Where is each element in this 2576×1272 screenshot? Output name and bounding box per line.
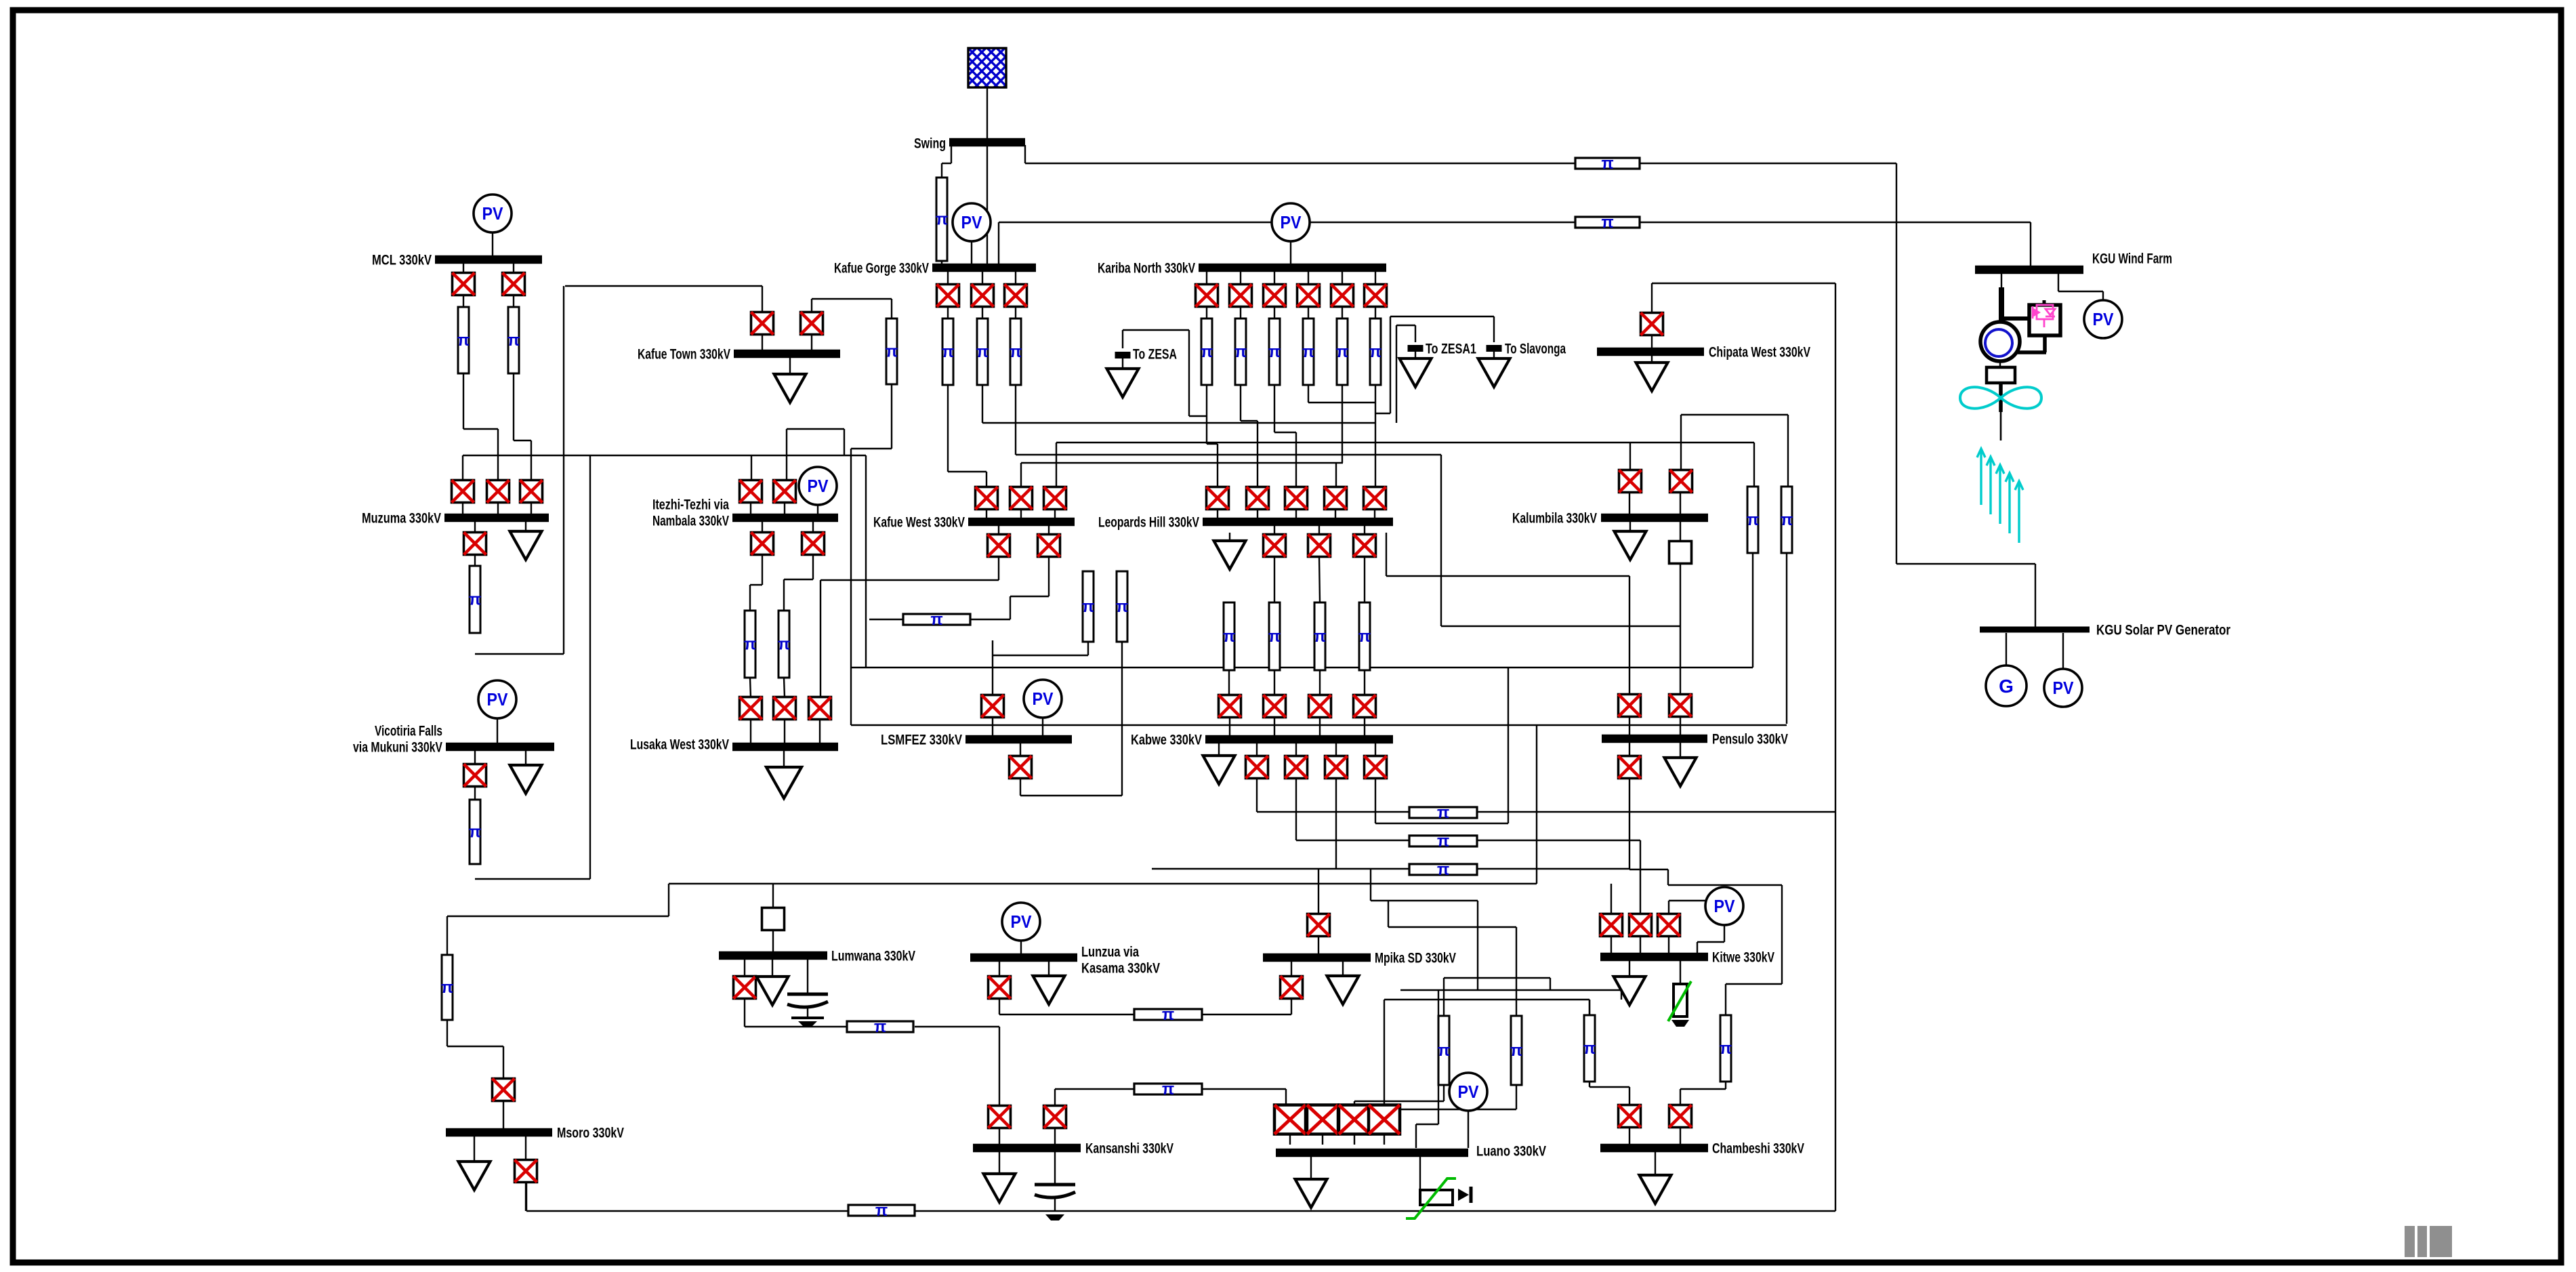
- svg-text:Chipata West 330kV: Chipata West 330kV: [1709, 345, 1810, 361]
- svg-text:PV: PV: [2093, 309, 2115, 329]
- svg-text:PV: PV: [1033, 689, 1054, 709]
- svg-text:PV: PV: [1281, 212, 1302, 232]
- svg-text:KGU Solar PV Generator: KGU Solar PV Generator: [2096, 623, 2230, 638]
- svg-text:PV: PV: [1458, 1082, 1480, 1102]
- svg-text:π: π: [1437, 832, 1449, 850]
- svg-text:π: π: [1116, 598, 1128, 616]
- svg-text:Pensulo 330kV: Pensulo 330kV: [1712, 732, 1788, 747]
- svg-text:π: π: [1268, 343, 1281, 361]
- svg-text:Chambeshi 330kV: Chambeshi 330kV: [1712, 1141, 1804, 1157]
- svg-text:π: π: [1010, 343, 1022, 361]
- svg-text:π: π: [1583, 1040, 1596, 1058]
- svg-text:π: π: [875, 1202, 888, 1220]
- svg-text:Kabwe 330kV: Kabwe 330kV: [1131, 733, 1202, 748]
- svg-text:Kafue Gorge 330kV: Kafue Gorge 330kV: [834, 261, 929, 276]
- svg-text:Lunzua via: Lunzua via: [1081, 945, 1139, 960]
- svg-text:Kalumbila 330kV: Kalumbila 330kV: [1512, 511, 1597, 527]
- svg-text:Vicotiria Falls: Vicotiria Falls: [375, 724, 442, 739]
- svg-text:π: π: [1720, 1040, 1732, 1058]
- svg-text:π: π: [1437, 804, 1449, 822]
- svg-text:π: π: [457, 331, 470, 350]
- svg-text:π: π: [1302, 343, 1314, 361]
- svg-text:π: π: [1201, 343, 1213, 361]
- svg-text:Muzuma 330kV: Muzuma 330kV: [362, 511, 441, 527]
- svg-text:Msoro 330kV: Msoro 330kV: [557, 1126, 624, 1141]
- svg-text:To Slavonga: To Slavonga: [1505, 342, 1566, 357]
- svg-text:G: G: [1999, 676, 2014, 697]
- svg-text:π: π: [778, 636, 790, 654]
- svg-text:π: π: [936, 211, 948, 229]
- svg-text:Kariba North 330kV: Kariba North 330kV: [1098, 261, 1195, 276]
- svg-text:LSMFEZ 330kV: LSMFEZ 330kV: [881, 733, 962, 748]
- svg-text:π: π: [1162, 1006, 1174, 1024]
- svg-text:KGU Wind Farm: KGU Wind Farm: [2092, 251, 2172, 267]
- svg-text:π: π: [1369, 343, 1382, 361]
- svg-text:PV: PV: [1011, 911, 1033, 932]
- svg-text:Mpika SD 330kV: Mpika SD 330kV: [1375, 951, 1456, 966]
- svg-text:π: π: [1314, 628, 1326, 646]
- svg-text:π: π: [441, 979, 453, 997]
- svg-text:π: π: [942, 343, 954, 361]
- svg-text:π: π: [1601, 155, 1613, 173]
- svg-text:π: π: [1781, 511, 1793, 529]
- svg-text:π: π: [1268, 628, 1281, 646]
- svg-text:PV: PV: [808, 476, 829, 496]
- svg-text:π: π: [1082, 598, 1094, 616]
- svg-text:Swing: Swing: [914, 136, 946, 152]
- svg-text:Lusaka West 330kV: Lusaka West 330kV: [630, 737, 729, 753]
- svg-text:π: π: [976, 343, 989, 361]
- svg-text:To ZESA: To ZESA: [1133, 347, 1177, 363]
- svg-text:π: π: [1234, 343, 1247, 361]
- svg-text:π: π: [1223, 628, 1235, 646]
- svg-text:π: π: [1438, 1042, 1450, 1060]
- svg-text:Nambala 330kV: Nambala 330kV: [652, 514, 729, 529]
- svg-text:π: π: [874, 1018, 886, 1036]
- svg-text:MCL 330kV: MCL 330kV: [372, 253, 432, 268]
- svg-text:PV: PV: [961, 212, 983, 232]
- svg-text:Lumwana 330kV: Lumwana 330kV: [831, 949, 915, 964]
- svg-text:π: π: [930, 611, 942, 629]
- svg-text:π: π: [886, 343, 898, 361]
- svg-text:π: π: [1601, 213, 1613, 232]
- svg-text:To ZESA1: To ZESA1: [1426, 342, 1476, 357]
- svg-text:π: π: [1162, 1080, 1174, 1099]
- svg-text:π: π: [1336, 343, 1348, 361]
- svg-text:PV: PV: [2053, 678, 2075, 698]
- svg-text:π: π: [1510, 1042, 1522, 1060]
- svg-text:PV: PV: [482, 203, 504, 224]
- svg-text:via Mukuni 330kV: via Mukuni 330kV: [353, 740, 442, 756]
- svg-text:Kafue Town 330kV: Kafue Town 330kV: [638, 347, 730, 363]
- svg-text:Kafue West 330kV: Kafue West 330kV: [873, 515, 965, 531]
- svg-text:π: π: [1747, 511, 1759, 529]
- svg-text:π: π: [1437, 861, 1449, 879]
- svg-text:Kitwe 330kV: Kitwe 330kV: [1712, 950, 1774, 966]
- svg-text:π: π: [1358, 628, 1371, 646]
- svg-text:PV: PV: [487, 689, 509, 710]
- svg-text:Luano 330kV: Luano 330kV: [1476, 1144, 1546, 1160]
- svg-text:Kansanshi 330kV: Kansanshi 330kV: [1085, 1141, 1173, 1157]
- svg-text:π: π: [744, 636, 756, 654]
- svg-text:Leopards Hill 330kV: Leopards Hill 330kV: [1098, 515, 1199, 531]
- svg-text:PV: PV: [1714, 896, 1736, 916]
- svg-text:Kasama 330kV: Kasama 330kV: [1081, 961, 1160, 977]
- svg-text:π: π: [469, 823, 481, 842]
- svg-text:π: π: [507, 331, 520, 350]
- svg-text:π: π: [469, 591, 481, 609]
- svg-text:Itezhi-Tezhi via: Itezhi-Tezhi via: [652, 497, 729, 513]
